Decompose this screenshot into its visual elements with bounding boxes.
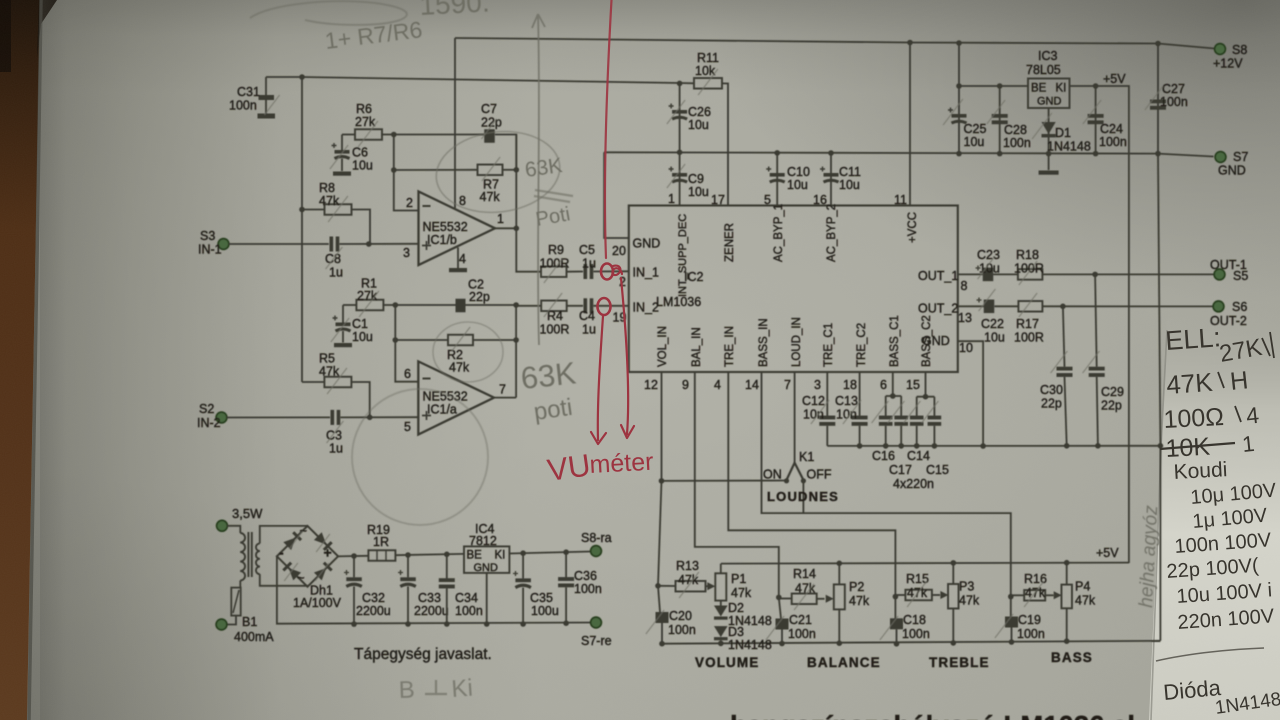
node +12V/C27 xyxy=(1155,41,1161,47)
svg-text:ZENER: ZENER xyxy=(724,223,736,262)
svg-text:10u: 10u xyxy=(352,159,373,173)
capacitor C32 xyxy=(353,556,355,577)
capacitor C5 xyxy=(567,271,584,273)
svg-text:D2: D2 xyxy=(728,601,744,615)
svg-text:IC1/a: IC1/a xyxy=(427,403,457,417)
svg-text:16: 16 xyxy=(813,193,827,207)
node rail/P2b xyxy=(837,640,843,646)
resistor R13 xyxy=(658,585,676,587)
svg-text:1590.: 1590. xyxy=(419,0,491,21)
svg-text:BASS_IN: BASS_IN xyxy=(758,318,770,367)
node C24 top xyxy=(1093,83,1099,89)
IC3 78L05 body xyxy=(1028,79,1070,109)
wire IC4 gnd xyxy=(486,573,488,624)
svg-text:C7: C7 xyxy=(481,102,497,116)
svg-text:KI: KI xyxy=(1056,83,1067,95)
svg-text:1u: 1u xyxy=(582,323,596,337)
svg-text:H: H xyxy=(1229,366,1250,396)
node gndrail/C10 xyxy=(774,150,780,156)
resistor R5 xyxy=(302,381,324,383)
node C34 top xyxy=(444,552,450,558)
svg-text:VOL_IN: VOL_IN xyxy=(657,326,669,367)
svg-text:1A/100V: 1A/100V xyxy=(293,596,342,610)
wire pot ground rail xyxy=(662,641,1160,644)
svg-text:15: 15 xyxy=(906,378,920,392)
wire GND rail S7 xyxy=(604,152,1213,156)
svg-text:C17: C17 xyxy=(889,463,912,477)
node rail IC4gnd xyxy=(484,621,490,627)
node pin5 junction xyxy=(367,415,373,421)
capacitor C23 xyxy=(958,273,983,275)
svg-text:100n: 100n xyxy=(1099,135,1127,149)
wire PSU ground rail xyxy=(277,556,596,623)
svg-text:+: + xyxy=(324,545,332,561)
svg-text:GND: GND xyxy=(1037,96,1062,108)
svg-text:R8: R8 xyxy=(319,181,335,195)
node fb2 top xyxy=(393,302,399,308)
svg-text:S2: S2 xyxy=(199,402,214,416)
node in2fb xyxy=(513,302,519,308)
diode D2 xyxy=(720,601,722,606)
svg-text:R6: R6 xyxy=(356,102,372,116)
node gnd/C25 xyxy=(956,151,962,157)
svg-text:S8: S8 xyxy=(1232,43,1247,57)
svg-text:4: 4 xyxy=(459,252,466,266)
op-amp IC1/a xyxy=(418,361,494,434)
svg-text:47k: 47k xyxy=(319,194,340,208)
wire bridge + to R19 xyxy=(338,555,368,558)
wire pin6 xyxy=(395,305,418,382)
capacitor C21 xyxy=(779,597,781,618)
node R16/C19 xyxy=(1008,594,1014,600)
svg-text:1: 1 xyxy=(1241,431,1256,457)
svg-text:8: 8 xyxy=(961,279,968,293)
svg-text:10u: 10u xyxy=(352,330,373,344)
capacitor C35 xyxy=(522,553,524,578)
node zener/C26 xyxy=(677,81,683,87)
svg-text:LOUDNES: LOUDNES xyxy=(767,489,839,504)
svg-text:S8-ra: S8-ra xyxy=(581,531,612,545)
svg-text:100n: 100n xyxy=(668,623,696,637)
svg-text:K1: K1 xyxy=(799,450,814,464)
svg-text:P4: P4 xyxy=(1075,580,1090,594)
wire fuse to AC2 xyxy=(227,616,236,625)
node C28 top xyxy=(997,83,1003,89)
svg-text:R16: R16 xyxy=(1024,572,1047,586)
capacitor C29 xyxy=(1095,274,1097,366)
node pin3 junction xyxy=(366,241,372,247)
svg-text:GND: GND xyxy=(474,562,499,574)
svg-text:Ki: Ki xyxy=(451,675,474,703)
svg-text:78L05: 78L05 xyxy=(1026,63,1061,77)
capacitor C24 xyxy=(1095,86,1097,154)
svg-text:10u: 10u xyxy=(984,331,1005,345)
node C35 top xyxy=(520,550,526,556)
svg-text:IN-2: IN-2 xyxy=(197,416,221,430)
potentiometer P3 xyxy=(948,584,959,609)
node rail/P3b xyxy=(951,640,957,646)
svg-text:C25: C25 xyxy=(964,122,987,136)
svg-text:C35: C35 xyxy=(530,591,553,605)
svg-text:S5: S5 xyxy=(1233,269,1248,283)
svg-text:47k: 47k xyxy=(795,582,816,596)
svg-text:BASS_C1: BASS_C1 xyxy=(889,315,901,367)
svg-text:VOLUME: VOLUME xyxy=(695,655,759,670)
node gndrail/C11 xyxy=(828,150,834,156)
svg-text:IN-1: IN-1 xyxy=(198,243,222,257)
svg-text:1u: 1u xyxy=(329,442,343,456)
svg-text:100n: 100n xyxy=(1003,136,1031,150)
capacitors C16 C17 pin6 pair xyxy=(892,372,894,396)
node gnd/C24 xyxy=(1093,151,1099,157)
svg-text:10u: 10u xyxy=(688,185,709,199)
svg-text:TRE_C2: TRE_C2 xyxy=(856,323,868,367)
svg-text:100u: 100u xyxy=(531,604,559,618)
resistor R2 xyxy=(395,339,448,341)
node rail/P4 xyxy=(1064,560,1070,566)
capacitors C14 C15 pin15 pair xyxy=(925,372,927,397)
svg-text:S7-re: S7-re xyxy=(581,634,612,648)
svg-text:6: 6 xyxy=(880,378,887,392)
svg-text:C26: C26 xyxy=(688,105,711,119)
svg-text:TRE_C1: TRE_C1 xyxy=(823,323,835,367)
pencil circle around R7 xyxy=(432,125,565,220)
svg-text:C29: C29 xyxy=(1101,385,1124,399)
capacitor C19 xyxy=(1010,597,1012,617)
svg-text:100Ω: 100Ω xyxy=(1163,403,1225,434)
capacitor C6 xyxy=(341,135,343,151)
wire pin7 loudness xyxy=(794,372,796,463)
node gnd/D1 xyxy=(1046,151,1052,157)
terminal S7-re xyxy=(591,617,602,628)
svg-text:R13: R13 xyxy=(676,559,699,573)
red squiggle IN_1 xyxy=(612,266,622,275)
svg-text:C22: C22 xyxy=(981,317,1004,331)
capacitor C1 xyxy=(342,305,344,323)
resistor R9 xyxy=(516,228,541,271)
node rail/C20 xyxy=(659,641,665,647)
svg-text:7812: 7812 xyxy=(469,534,497,548)
svg-text:C36: C36 xyxy=(574,569,597,583)
svg-text:C10: C10 xyxy=(787,165,810,179)
svg-text:BE: BE xyxy=(1031,83,1047,95)
transformer TR primary xyxy=(240,533,245,543)
wire pin12 volume xyxy=(658,372,662,586)
svg-text:22p: 22p xyxy=(1041,397,1062,411)
node rail/C21 xyxy=(779,641,785,647)
wire secondary top to bridge xyxy=(260,526,308,544)
svg-text:D3: D3 xyxy=(728,625,744,639)
svg-text:9: 9 xyxy=(682,378,689,392)
svg-text:4: 4 xyxy=(714,378,721,392)
svg-text:Tápegység javaslat.: Tápegység javaslat. xyxy=(354,646,492,663)
svg-text:7: 7 xyxy=(499,383,506,397)
svg-text:~: ~ xyxy=(297,570,305,585)
wire IC3 out +5V xyxy=(1070,86,1129,563)
capacitor C36 xyxy=(565,552,567,577)
node zener/C31 xyxy=(299,74,305,80)
svg-text:R4: R4 xyxy=(547,309,563,323)
node +12V/pin11 xyxy=(907,40,913,46)
svg-text:hangszínszabályozó LM1036 el: hangszínszabályozó LM1036 el xyxy=(730,710,1135,720)
svg-text:C21: C21 xyxy=(789,613,812,627)
svg-text:1: 1 xyxy=(497,212,504,226)
resistor R18 xyxy=(1018,269,1043,280)
svg-text:C6: C6 xyxy=(352,146,368,160)
node rail/C19 xyxy=(1009,639,1015,645)
svg-text:poti: poti xyxy=(532,394,574,426)
svg-text:100n: 100n xyxy=(788,627,816,641)
svg-text:P2: P2 xyxy=(849,580,864,594)
node bus/C30 xyxy=(1064,443,1070,449)
capacitor C25 xyxy=(958,86,960,154)
svg-text:+VCC: +VCC xyxy=(907,212,919,243)
svg-text:10u: 10u xyxy=(688,118,709,132)
node rail C33 xyxy=(405,621,411,627)
svg-text:47k: 47k xyxy=(731,586,752,600)
wire secondary bottom to bridge xyxy=(260,574,308,587)
node out1/C29 xyxy=(1092,272,1098,278)
svg-text:22p: 22p xyxy=(469,290,490,304)
svg-text:20: 20 xyxy=(612,244,626,258)
wire pin10 gnd xyxy=(958,341,983,446)
capacitor C27 xyxy=(1157,44,1159,154)
svg-text:C18: C18 xyxy=(903,613,926,627)
svg-text:IN_1: IN_1 xyxy=(633,266,659,280)
svg-text:R18: R18 xyxy=(1016,248,1039,262)
capacitor C31 xyxy=(266,76,302,78)
resistor R19 xyxy=(368,550,395,561)
node fb2 mid xyxy=(393,337,399,343)
node fb1 top xyxy=(391,132,397,138)
node pin12/switch xyxy=(659,478,665,484)
svg-text:100n: 100n xyxy=(902,627,930,641)
svg-text:-: - xyxy=(279,545,284,561)
svg-text:AC_BYP_2: AC_BYP_2 xyxy=(826,204,838,262)
svg-text:C34: C34 xyxy=(455,591,478,605)
terminal PSU AC1 xyxy=(217,520,228,531)
svg-text:Koudi: Koudi xyxy=(1173,458,1228,484)
svg-text:C24: C24 xyxy=(1100,122,1123,136)
wire +12V to C25/IC3 xyxy=(958,43,960,86)
potentiometer P4 xyxy=(1061,585,1072,609)
terminal S3 input xyxy=(218,239,229,250)
terminal PSU AC2 xyxy=(216,619,227,630)
svg-text:47k: 47k xyxy=(449,361,470,375)
svg-text:C30: C30 xyxy=(1040,383,1063,397)
svg-text:C1: C1 xyxy=(352,317,368,331)
ground C6 xyxy=(333,172,351,176)
svg-text:KI: KI xyxy=(495,550,506,562)
svg-text:12: 12 xyxy=(644,378,658,392)
wire gnd drop to pot rail xyxy=(1159,446,1161,641)
wire pin2 feedback node xyxy=(394,135,419,211)
capacitor C11 xyxy=(830,153,832,206)
svg-text:OUT_1: OUT_1 xyxy=(918,269,958,283)
ground IC1/b pin4 xyxy=(457,248,459,269)
svg-text:3: 3 xyxy=(814,378,821,392)
svg-text:R17: R17 xyxy=(1016,317,1039,331)
node rail/C18 xyxy=(894,641,900,647)
terminal S8-ra xyxy=(591,546,602,557)
transformer TR secondary xyxy=(256,543,260,551)
svg-text:S6: S6 xyxy=(1232,300,1247,314)
wire zener node horizontal xyxy=(302,77,694,83)
svg-text:D1: D1 xyxy=(1055,126,1071,140)
potentiometer P1 xyxy=(715,573,726,600)
svg-text:3,5W: 3,5W xyxy=(232,506,263,521)
node gnd/C28 xyxy=(997,151,1003,157)
svg-text:P3: P3 xyxy=(959,580,974,594)
svg-text:1R: 1R xyxy=(373,535,389,549)
svg-text:47k: 47k xyxy=(480,190,501,204)
svg-text:BE: BE xyxy=(467,550,483,562)
svg-text:100n: 100n xyxy=(229,99,257,113)
capacitor C28 xyxy=(999,86,1001,154)
red circle IN_2 xyxy=(598,298,611,315)
wire pin20 gnd xyxy=(604,152,629,238)
fuse B1 xyxy=(231,588,240,616)
node C25 top xyxy=(956,83,962,89)
wire pin4 treble xyxy=(728,372,895,597)
resistor R7 xyxy=(394,169,478,171)
ground D1 xyxy=(1048,154,1050,170)
node rail C36 xyxy=(563,620,569,626)
svg-text:R5: R5 xyxy=(319,352,335,366)
wire +12V drop to IC1 pin 8 xyxy=(454,38,456,208)
svg-text:1u: 1u xyxy=(329,266,343,280)
capacitor C22 xyxy=(958,305,984,307)
resistor R16 xyxy=(1011,594,1024,596)
svg-text:5: 5 xyxy=(764,193,771,207)
op-amp IC1/b xyxy=(419,192,496,266)
svg-text:IN_2: IN_2 xyxy=(633,301,659,315)
red line left arrow xyxy=(591,316,606,444)
node rail/P3 xyxy=(951,560,957,566)
node C33 top xyxy=(405,552,411,558)
resistor R4 xyxy=(516,305,541,307)
svg-text:63K: 63K xyxy=(519,355,578,396)
node fb2 right xyxy=(513,337,519,343)
svg-text:C16: C16 xyxy=(872,449,895,463)
svg-text:22p: 22p xyxy=(1101,399,1122,413)
svg-text:7: 7 xyxy=(784,378,791,392)
node +12V/C25 xyxy=(956,40,962,46)
wire S2 to C3 xyxy=(227,416,331,418)
svg-text:GND: GND xyxy=(1218,164,1246,178)
svg-text:3: 3 xyxy=(403,246,410,260)
svg-text:R11: R11 xyxy=(697,51,719,65)
bridge rectifier Dh1 xyxy=(277,526,338,587)
svg-text:100n: 100n xyxy=(1160,95,1188,109)
svg-text:C11: C11 xyxy=(839,165,861,179)
resistor R11 xyxy=(694,78,722,89)
svg-text:C27: C27 xyxy=(1162,82,1185,96)
wire pin9 balance xyxy=(695,372,779,597)
capacitor C20 xyxy=(658,586,660,612)
resistor R1 xyxy=(343,304,356,306)
resistor R15 xyxy=(895,594,905,596)
wire S3 to C8 xyxy=(229,243,329,245)
capacitor C18 xyxy=(894,597,896,620)
svg-text:TREBLE: TREBLE xyxy=(929,655,990,670)
svg-text:47k: 47k xyxy=(959,594,980,608)
svg-text:GND: GND xyxy=(633,237,661,251)
svg-text:13: 13 xyxy=(958,311,972,325)
svg-text:100R: 100R xyxy=(1014,262,1044,276)
wire pin14 bass xyxy=(762,372,1011,597)
node R8/x302 xyxy=(299,207,305,213)
terminal S7 GND xyxy=(1215,152,1226,163)
svg-text:C4: C4 xyxy=(579,309,595,323)
diode D1 xyxy=(1048,108,1050,154)
wire AC1 to primary xyxy=(227,526,240,533)
svg-text:NE5532: NE5532 xyxy=(423,390,468,404)
node bus/pin10 xyxy=(980,443,986,449)
svg-text:BALANCE: BALANCE xyxy=(807,655,881,670)
svg-text:C23: C23 xyxy=(977,248,1000,262)
svg-text:47K: 47K xyxy=(1165,367,1214,400)
node rail C32 xyxy=(351,621,357,627)
svg-text:C9: C9 xyxy=(688,172,704,186)
svg-text:+5V: +5V xyxy=(1096,546,1119,560)
svg-text:100n: 100n xyxy=(455,604,483,618)
svg-text:14: 14 xyxy=(745,378,759,392)
terminal S2 input xyxy=(216,412,227,423)
capacitor C30 xyxy=(1063,306,1065,366)
svg-text:C33: C33 xyxy=(418,591,441,605)
svg-text:400mA: 400mA xyxy=(234,630,274,644)
svg-text:C5: C5 xyxy=(579,243,595,257)
node fb1 right xyxy=(514,167,520,173)
svg-text:22p: 22p xyxy=(481,116,502,130)
capacitor C2 xyxy=(395,304,456,306)
resistor R8 xyxy=(302,209,325,211)
node R14/C21 xyxy=(776,595,782,601)
svg-text:S7: S7 xyxy=(1233,150,1248,164)
ground C1 xyxy=(334,343,352,347)
wire IC1/a output xyxy=(494,397,516,399)
svg-text:100n: 100n xyxy=(1017,627,1045,641)
svg-text:GND: GND xyxy=(922,334,950,348)
node rail/P2 xyxy=(837,561,843,567)
svg-text:~: ~ xyxy=(300,523,308,538)
svg-text:C13: C13 xyxy=(835,394,858,408)
pencil circle large below IC1a xyxy=(352,389,488,525)
wire ac-ground bus xyxy=(827,445,1160,447)
svg-text:11: 11 xyxy=(894,193,907,207)
svg-text:47k: 47k xyxy=(1075,594,1096,608)
svg-text:10u: 10u xyxy=(787,178,808,192)
capacitor C8 xyxy=(330,237,334,252)
node rail/D3 xyxy=(718,641,724,647)
capacitor C34 xyxy=(446,554,448,578)
svg-text:1N4148: 1N4148 xyxy=(1047,140,1091,154)
svg-text:NE5532: NE5532 xyxy=(423,220,468,234)
pencil arrow up xyxy=(532,14,545,345)
capacitor C3 xyxy=(331,410,335,425)
node C36 top xyxy=(563,549,569,555)
svg-text:P1: P1 xyxy=(731,572,746,586)
wood table edge left xyxy=(0,0,40,720)
node R13/C20 xyxy=(655,583,661,589)
node R15/C18 xyxy=(893,594,899,600)
pencil swoosh top xyxy=(250,1,407,25)
svg-text:C20: C20 xyxy=(669,609,692,623)
node gndrail/pin1 xyxy=(677,150,683,156)
svg-text:BASS: BASS xyxy=(1051,650,1093,665)
IC4 7812 body xyxy=(464,546,509,573)
